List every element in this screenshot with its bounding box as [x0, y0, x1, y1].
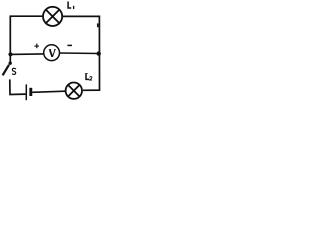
- wire top-left and left vertical: [10, 16, 43, 62]
- wire middle-left: [10, 53, 43, 56]
- battery short plate: [29, 88, 32, 96]
- battery long plate: [25, 84, 27, 100]
- lamp L2: [66, 83, 82, 99]
- lamp L1: [43, 7, 62, 26]
- switch S blade: [3, 65, 9, 76]
- label L1: [68, 2, 74, 10]
- node junction right: [97, 51, 101, 55]
- wire middle-right: [60, 52, 99, 55]
- wire top-right, right vertical, bottom-right: [62, 16, 99, 90]
- node junction left: [8, 52, 12, 56]
- label plus: [34, 44, 39, 49]
- wire lower-left and bottom-left: [10, 79, 26, 94]
- switch S pivot: [9, 62, 12, 65]
- label L2: [85, 73, 89, 79]
- label S: [12, 68, 16, 74]
- wire battery to lamp L2: [32, 91, 65, 92]
- voltmeter V: [44, 45, 60, 61]
- label minus: [67, 44, 72, 46]
